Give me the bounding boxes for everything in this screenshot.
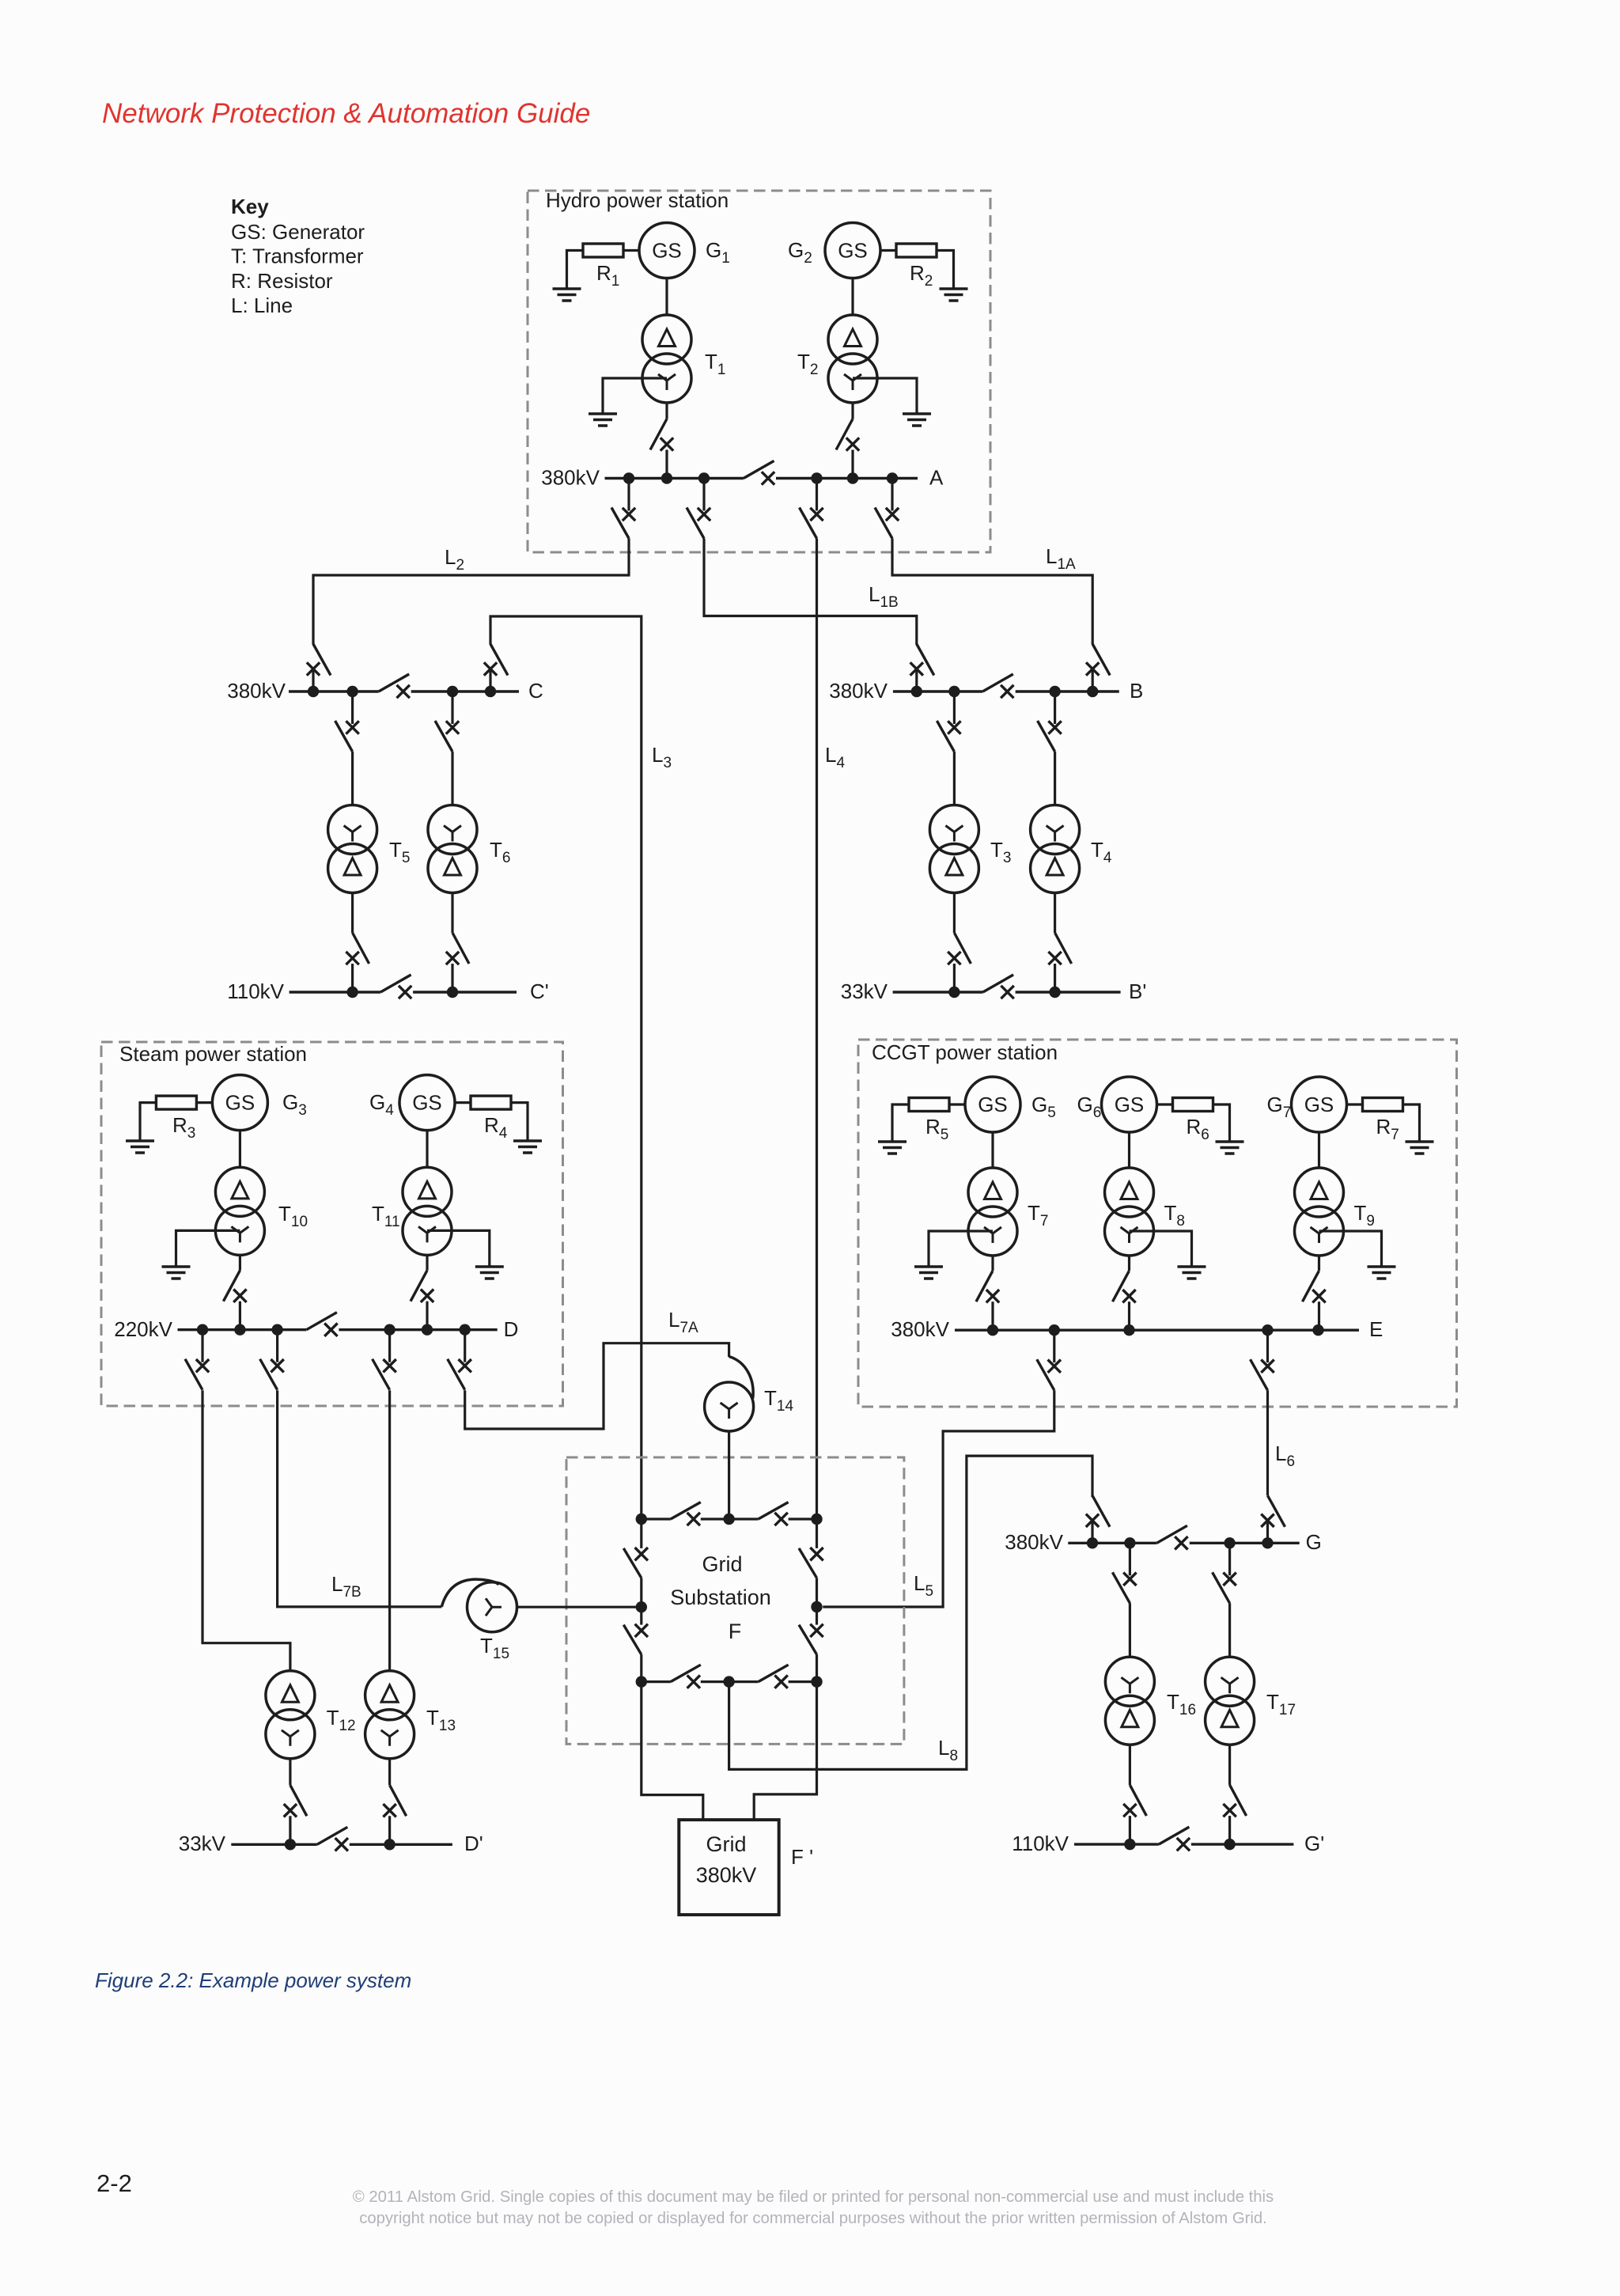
- wire T14 to top bus: [728, 1431, 730, 1519]
- T8 neutral wire: [1130, 1231, 1192, 1267]
- svg-text:D': D': [464, 1832, 483, 1855]
- transformer T12: [266, 1671, 315, 1759]
- generator G1: [639, 223, 695, 278]
- wire T11 down: [426, 1255, 428, 1270]
- generator G7: [1292, 1077, 1347, 1132]
- wire T17 down: [1228, 1745, 1231, 1785]
- wire T7 down: [991, 1256, 994, 1271]
- svg-text:GS: GS: [412, 1091, 442, 1115]
- top bus switch left: [642, 1502, 729, 1526]
- svg-text:G: G: [1306, 1530, 1322, 1554]
- svg-text:E: E: [1369, 1317, 1383, 1341]
- busbar C' 110kV: [290, 987, 517, 998]
- svg-text:B': B': [1129, 979, 1146, 1003]
- busbar A 380kV: [605, 472, 918, 483]
- right bus upper breaker: [799, 1519, 823, 1607]
- transformer T11: [403, 1167, 452, 1255]
- line L8: [729, 1456, 1092, 1769]
- line L1A: [892, 539, 1092, 645]
- svg-text:110kV: 110kV: [227, 979, 284, 1003]
- breaker-switch feeder L2 at busbar A: [611, 479, 635, 539]
- T1 neutral wire: [603, 378, 667, 414]
- wire B to T3: [953, 752, 956, 805]
- wire T15 to left bus: [517, 1606, 642, 1608]
- wire R-corner: [1213, 1104, 1230, 1142]
- generator G2: [825, 223, 880, 278]
- busbar C' section disconnector: [380, 975, 411, 998]
- busbar B 380kV: [893, 686, 1119, 697]
- breaker-switch T8 to busbar E: [1113, 1271, 1136, 1330]
- T11 neutral wire: [427, 1230, 490, 1267]
- svg-text:Hydro power station: Hydro power station: [546, 188, 729, 212]
- wire R4-corner: [511, 1103, 528, 1141]
- substation bottom bus: [636, 1676, 823, 1687]
- hydro power station boundary: [528, 191, 990, 552]
- resistor R2: [896, 244, 937, 257]
- breaker-switch T16 feeder at busbar G: [1112, 1543, 1136, 1603]
- wire B to T4: [1054, 752, 1056, 805]
- line D to T13: [388, 1390, 391, 1671]
- svg-text:380kV: 380kV: [696, 1863, 757, 1887]
- busbar C 380kV: [289, 686, 519, 697]
- resistor R4: [471, 1096, 511, 1109]
- ground T9: [1368, 1267, 1396, 1279]
- breaker-switch L2 to busbar C: [307, 644, 331, 691]
- breaker-switch T7 to busbar E: [976, 1271, 999, 1330]
- line L7A: [465, 1343, 729, 1429]
- busbar E 380kV: [955, 1324, 1359, 1336]
- wire T9 down: [1318, 1256, 1320, 1271]
- ground T8: [1178, 1267, 1206, 1279]
- line L2: [313, 539, 629, 645]
- bottom bus switch right: [729, 1665, 817, 1688]
- wire G to T16: [1129, 1603, 1131, 1657]
- generator G6: [1102, 1077, 1157, 1132]
- svg-text:GS: GS: [1304, 1093, 1334, 1116]
- breaker-switch T4 feeder at busbar B: [1038, 691, 1062, 752]
- busbar B section disconnector: [982, 674, 1013, 698]
- ground T2: [903, 414, 931, 426]
- wire G3-T10: [239, 1131, 241, 1168]
- line L4: [816, 539, 818, 1520]
- breaker-switch L1A to busbar B: [1086, 644, 1110, 691]
- busbar D' section disconnector: [317, 1827, 348, 1851]
- transformer T1: [642, 315, 691, 403]
- key legend: [231, 195, 365, 317]
- line D to T12: [202, 1390, 290, 1671]
- T9 neutral wire: [1319, 1231, 1382, 1267]
- wire T10 down: [239, 1255, 241, 1270]
- breaker-switch L6 feeder at busbar E: [1251, 1330, 1274, 1390]
- resistor R5: [909, 1098, 949, 1112]
- transformer T8: [1105, 1168, 1154, 1256]
- busbar C section disconnector: [379, 674, 410, 698]
- ground T1: [589, 414, 617, 426]
- wire T12 down: [289, 1759, 291, 1786]
- ground T11: [475, 1267, 504, 1279]
- transformer T5: [328, 805, 377, 893]
- busbar G' 110kV: [1074, 1839, 1293, 1850]
- svg-text:380kV: 380kV: [541, 466, 600, 490]
- wire T2 down: [851, 403, 854, 419]
- breaker-switch T12 feeder at busbar D: [185, 1330, 209, 1390]
- svg-text:Network Protection & Automatio: Network Protection & Automation Guide: [102, 98, 590, 129]
- svg-text:C': C': [530, 979, 549, 1003]
- transformer T16: [1105, 1657, 1154, 1745]
- svg-text:copyright notice but may not b: copyright notice but may not be copied o…: [359, 2210, 1267, 2227]
- breaker-switch L1B to busbar B: [910, 644, 934, 691]
- breaker-switch T5 to busbar C': [346, 933, 369, 992]
- wire R-corner: [892, 1104, 909, 1142]
- breaker-switch T6 to busbar C': [446, 933, 469, 992]
- steam power station boundary: [101, 1042, 563, 1406]
- breaker-switch busbar C to L3: [484, 644, 508, 691]
- wire GS-R2: [880, 249, 896, 252]
- ground resistor: [1406, 1142, 1434, 1154]
- breaker-switch T10 to busbar D: [223, 1271, 246, 1330]
- busbar D section disconnector: [306, 1313, 337, 1336]
- wire T3 down: [953, 893, 956, 934]
- wire right bus to grid box: [754, 1682, 816, 1821]
- T7 neutral wire: [929, 1231, 993, 1267]
- generator G5: [965, 1077, 1020, 1132]
- top bus switch right: [729, 1502, 817, 1526]
- wire T5 down: [351, 893, 354, 934]
- wire C to T6: [451, 752, 453, 805]
- wire G4-T11: [426, 1131, 428, 1168]
- breaker-switch feeder L1B at busbar A: [687, 479, 710, 539]
- svg-text:GS: GS: [652, 239, 682, 263]
- transformer T6: [428, 805, 477, 893]
- generator G3: [212, 1075, 267, 1131]
- busbar B' 33kV: [893, 987, 1121, 998]
- busbar G section disconnector: [1156, 1525, 1187, 1549]
- line L7B: [278, 1390, 442, 1607]
- wire R3-corner: [140, 1103, 156, 1141]
- svg-text:33kV: 33kV: [841, 979, 888, 1003]
- line L6: [1266, 1390, 1269, 1495]
- line L5: [823, 1390, 1054, 1607]
- breaker-switch L5 feeder at busbar E: [1037, 1330, 1061, 1390]
- svg-text:380kV: 380kV: [227, 679, 286, 703]
- svg-text:Grid: Grid: [706, 1832, 746, 1856]
- breaker-switch T1 to busbar A: [650, 419, 673, 479]
- line L3: [490, 616, 642, 1519]
- wire R1-corner: [567, 251, 584, 290]
- transformer T13: [365, 1671, 414, 1759]
- resistor R1: [583, 244, 623, 257]
- right bus middle node: [811, 1601, 822, 1612]
- svg-text:GS: Generator: GS: Generator: [231, 220, 365, 244]
- T10 neutral wire: [176, 1230, 240, 1267]
- svg-text:G': G': [1304, 1832, 1324, 1855]
- breaker-switch feeder L1A at busbar A: [875, 479, 899, 539]
- svg-text:© 2011 Alstom Grid. Single cop: © 2011 Alstom Grid. Single copies of thi…: [353, 2188, 1274, 2206]
- busbar D 220kV: [178, 1324, 498, 1336]
- breaker-switch L6 to busbar G: [1261, 1495, 1285, 1543]
- svg-text:GS: GS: [978, 1093, 1008, 1116]
- wire GS-R: [1157, 1103, 1173, 1105]
- bottom bus switch left: [642, 1665, 729, 1688]
- busbar G 380kV: [1068, 1537, 1299, 1548]
- ground T7: [914, 1267, 943, 1279]
- svg-text:GS: GS: [225, 1091, 255, 1115]
- svg-text:GS: GS: [838, 239, 868, 263]
- wire T16 down: [1129, 1745, 1131, 1785]
- svg-text:33kV: 33kV: [179, 1832, 226, 1855]
- wire G to T17: [1228, 1603, 1231, 1657]
- wire GS-R: [949, 1103, 965, 1105]
- CCGT power station boundary: [858, 1040, 1457, 1407]
- breaker-switch L8 to busbar G: [1086, 1495, 1110, 1543]
- breaker-switch feeder L4 at busbar A: [800, 479, 823, 539]
- svg-text:L: Line: L: Line: [231, 294, 293, 317]
- transformer T7: [968, 1168, 1017, 1256]
- transformer T3: [929, 805, 978, 893]
- wire R-corner: [1403, 1104, 1420, 1142]
- wire G1-T1: [665, 278, 668, 316]
- transformer T10: [215, 1167, 264, 1255]
- svg-text:220kV: 220kV: [114, 1317, 172, 1341]
- transformer T4: [1031, 805, 1080, 893]
- autotransformer T14: [705, 1357, 754, 1432]
- wire GS-R: [1347, 1103, 1363, 1105]
- wire left bus to grid box: [642, 1682, 703, 1821]
- svg-text:D: D: [504, 1317, 519, 1341]
- ground resistor: [878, 1142, 907, 1154]
- right bus lower breaker: [799, 1607, 823, 1682]
- wire G2-T2: [851, 278, 854, 316]
- svg-text:A: A: [929, 466, 944, 490]
- ground R4: [513, 1141, 542, 1153]
- transformer T9: [1295, 1168, 1344, 1256]
- breaker-switch T12 to busbar D': [284, 1785, 307, 1844]
- svg-text:CCGT power station: CCGT power station: [872, 1040, 1058, 1064]
- wire T1 down: [665, 403, 668, 419]
- line L1B: [704, 539, 917, 645]
- svg-text:GS: GS: [1115, 1093, 1145, 1116]
- grid 380kV box F': [679, 1820, 778, 1915]
- left bus middle node: [636, 1601, 647, 1612]
- wire GS-R4: [455, 1101, 471, 1104]
- wire R2-corner: [937, 251, 954, 290]
- ground resistor: [1216, 1142, 1244, 1154]
- wire T4 down: [1054, 893, 1056, 934]
- resistor R7: [1363, 1098, 1403, 1112]
- breaker-switch T9 to busbar E: [1303, 1271, 1326, 1330]
- svg-text:110kV: 110kV: [1012, 1832, 1069, 1855]
- breaker-switch T16 to busbar G': [1123, 1785, 1146, 1844]
- wire GS-R3: [196, 1101, 212, 1104]
- generator G4: [399, 1075, 455, 1131]
- ground R2: [940, 289, 968, 301]
- svg-text:F: F: [729, 1620, 742, 1643]
- breaker-switch T13 to busbar D': [383, 1785, 406, 1844]
- breaker-switch T4 to busbar B': [1048, 933, 1071, 992]
- ground T10: [162, 1267, 191, 1279]
- transformer T2: [828, 315, 877, 403]
- left bus upper breaker: [623, 1519, 648, 1607]
- svg-text:380kV: 380kV: [1005, 1530, 1063, 1554]
- svg-text:Grid: Grid: [702, 1552, 742, 1576]
- wire G5-T7: [991, 1132, 994, 1168]
- breaker-switch L7A feeder at busbar D: [448, 1330, 471, 1390]
- ground R3: [126, 1141, 154, 1153]
- T2 neutral wire: [853, 378, 917, 414]
- transformer T17: [1206, 1657, 1255, 1745]
- breaker-switch T13 feeder at busbar D: [373, 1330, 396, 1390]
- autotransformer T15: [441, 1579, 517, 1632]
- resistor R3: [156, 1096, 196, 1109]
- wire C to T5: [351, 752, 354, 805]
- busbar D' 33kV: [231, 1839, 452, 1850]
- svg-text:2-2: 2-2: [97, 2169, 132, 2197]
- svg-text:B: B: [1130, 679, 1143, 703]
- breaker-switch T3 feeder at busbar B: [937, 691, 960, 752]
- wire GS-R1: [623, 249, 639, 252]
- svg-text:T: Transformer: T: Transformer: [231, 244, 364, 268]
- breaker-switch T5 feeder at busbar C: [335, 691, 359, 752]
- breaker-switch T6 feeder at busbar C: [435, 691, 459, 752]
- svg-text:380kV: 380kV: [891, 1317, 949, 1341]
- breaker-switch T3 to busbar B': [948, 933, 971, 992]
- breaker-switch L7B feeder at busbar D: [260, 1330, 284, 1390]
- svg-text:C: C: [528, 679, 543, 703]
- grid substation F boundary: [566, 1457, 904, 1744]
- left bus lower breaker: [623, 1607, 648, 1681]
- busbar B' section disconnector: [983, 975, 1014, 998]
- svg-text:380kV: 380kV: [829, 679, 888, 703]
- wire T8 down: [1128, 1256, 1130, 1271]
- breaker-switch T17 to busbar G': [1223, 1785, 1246, 1844]
- busbar G' section disconnector: [1159, 1827, 1190, 1851]
- svg-text:Key: Key: [231, 195, 269, 218]
- breaker-switch T2 to busbar A: [836, 419, 859, 479]
- breaker-switch T11 to busbar D: [411, 1271, 433, 1330]
- wire G7-T9: [1318, 1132, 1320, 1168]
- svg-text:F ': F ': [791, 1845, 813, 1869]
- wire G6-T8: [1128, 1132, 1130, 1168]
- svg-text:Substation: Substation: [670, 1586, 771, 1609]
- busbar A section disconnector: [744, 461, 774, 485]
- svg-text:Figure 2.2: Example power syst: Figure 2.2: Example power system: [95, 1968, 411, 1992]
- wire T6 down: [451, 893, 453, 934]
- ground R1: [553, 289, 581, 301]
- substation top bus: [636, 1514, 823, 1525]
- breaker-switch T17 feeder at busbar G: [1213, 1543, 1236, 1603]
- svg-text:R: Resistor: R: Resistor: [231, 269, 333, 293]
- svg-text:Steam power station: Steam power station: [119, 1042, 307, 1066]
- resistor R6: [1173, 1098, 1213, 1112]
- wire T13 down: [388, 1759, 391, 1786]
